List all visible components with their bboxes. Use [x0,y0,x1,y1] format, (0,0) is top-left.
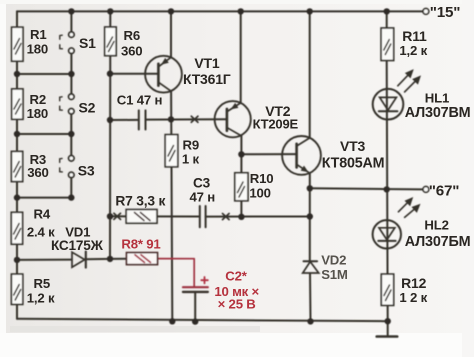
wire VT1 emitter column [170,11,172,57]
wire VT3 emitter down [309,173,311,188]
node VT3 emitter junction [307,185,313,191]
svg-text:КТ805АМ: КТ805АМ [322,155,385,171]
wire VT2 collector down [240,136,242,154]
svg-text:АЛ307БМ: АЛ307БМ [405,234,471,250]
LED HL2 [373,198,420,248]
wire C1 row right to VT2 base [146,118,227,120]
node bottom bus junctions [169,318,391,325]
wire VT1 collector / R9 column down to bottom bus [171,91,172,321]
wire row R2/R3 [17,133,71,135]
svg-text:R11: R11 [402,28,427,44]
svg-text:R9: R9 [183,138,199,153]
resistor R1 [12,27,23,61]
node top bus junctions [68,8,390,14]
svg-text:АЛ307ВМ: АЛ307ВМ [405,105,471,121]
wire VT1 base lead [110,73,158,75]
svg-text:1 2 к: 1 2 к [399,290,427,305]
wire VT3 collector column [309,11,311,137]
svg-text:R8* 91: R8* 91 [121,237,160,252]
wire R11 HL1 HL2 R12 column [386,11,388,28]
ground stub [387,321,389,336]
resistor R3 [11,151,22,181]
svg-text:1,2 к: 1,2 к [27,290,55,305]
wire VD1 row [17,259,72,261]
wire C2 bottom lead [194,292,196,322]
svg-text:360: 360 [27,165,48,180]
transistor VT3 [282,136,321,175]
resistor R10 [235,173,248,201]
svg-text:VT3: VT3 [340,138,365,154]
transistor VT2 [215,101,251,137]
wire VT2 emitter column [240,11,242,103]
resistor R7 [126,210,157,224]
wire row R1/R2 [17,73,71,75]
diode VD2 [303,261,319,273]
x-mark R7 left [114,213,121,219]
wire left column [16,11,18,318]
svg-text:S2: S2 [79,100,96,116]
node x110 column junctions [107,71,113,263]
svg-text:R7 3,3 к: R7 3,3 к [115,193,165,208]
wire VD2 column lower [309,273,312,321]
svg-text:R6: R6 [124,28,140,43]
wire top bus [17,10,423,12]
wire R8 left lead [110,258,127,260]
resistor R6 [105,27,117,56]
svg-text:HL2: HL2 [424,217,448,232]
svg-text:C1 47 н: C1 47 н [117,93,163,108]
wire VT3 base lead [241,153,296,155]
wire R7 row left of C3 [110,215,199,217]
resistor R11 [381,28,394,61]
transistor VT1 [145,56,182,93]
wire emitter row to 67 terminal [310,188,423,189]
svg-text:× 25 В: × 25 В [218,296,256,311]
wire row R3/R4 [17,197,71,199]
switch S2 [60,94,74,114]
svg-text:"67": "67" [429,183,460,200]
svg-text:"15": "15" [430,4,461,21]
wire R6 / x110 column [109,11,111,259]
svg-text:S1: S1 [79,35,96,51]
svg-text:S1M: S1M [321,267,348,282]
resistor R5 [11,274,22,304]
svg-text:C2*: C2* [225,269,247,284]
resistor R2 [12,89,23,119]
svg-text:S3: S3 [78,162,95,178]
resistor R4 [11,212,22,244]
svg-text:1 к: 1 к [182,152,200,167]
svg-text:360: 360 [121,43,142,58]
svg-text:R12: R12 [401,275,426,291]
svg-text:VD2: VD2 [321,253,346,268]
node left column junctions [14,71,20,263]
node C1/VT1 collector junction [168,116,174,122]
node R7 row / VD2 junction [307,213,313,219]
capacitor C2 (electrolytic, red/black) [183,277,208,292]
resistor R8 (red) [127,253,158,265]
LED HL1 [373,71,420,120]
node R10 bottom junction [238,214,244,220]
wire red link R8 to C2 [158,259,195,288]
diode VD1 [72,252,86,268]
node terminal "15" [423,9,429,15]
svg-text:VT1: VT1 [194,55,219,71]
svg-text:C3: C3 [193,175,211,190]
svg-text:1,2 к: 1,2 к [399,43,427,58]
capacitor C1 [139,110,146,129]
x-mark C1 to VT2 [191,116,198,122]
node terminal "67" [423,187,429,193]
label C2 (red) [214,269,259,312]
svg-text:R5: R5 [34,276,50,291]
wire VD2 column upper [309,188,311,260]
svg-text:100: 100 [249,186,270,201]
svg-text:R1: R1 [30,27,46,42]
resistor R9 [165,135,178,167]
wire R10 leads [240,154,242,173]
svg-text:КС175Ж: КС175Ж [51,238,104,253]
wire R7 row right of C3 [206,216,310,218]
ground [377,335,398,338]
x-mark C3 right [223,214,230,220]
node VT2 collector junction [238,151,244,157]
wire bottom bus [17,319,388,321]
node 67 row junction [384,186,390,192]
capacitor C3 [200,206,206,227]
wire switch column S1-S3 segments [70,11,72,32]
node switch column junctions [68,71,75,201]
switch S1 [60,32,74,54]
svg-text:R2: R2 [30,92,46,107]
svg-text:КТ209Е: КТ209Е [253,117,299,132]
svg-text:180: 180 [27,42,48,57]
svg-text:47 н: 47 н [190,189,216,204]
wire C1 row left [110,119,139,121]
resistor R12 [381,274,393,305]
svg-text:R10: R10 [250,171,274,186]
svg-text:180: 180 [27,106,48,121]
svg-text:HL1: HL1 [425,91,449,106]
svg-text:КТ361Г: КТ361Г [183,71,231,87]
switch S3 [60,156,74,178]
svg-text:R4: R4 [34,206,51,221]
